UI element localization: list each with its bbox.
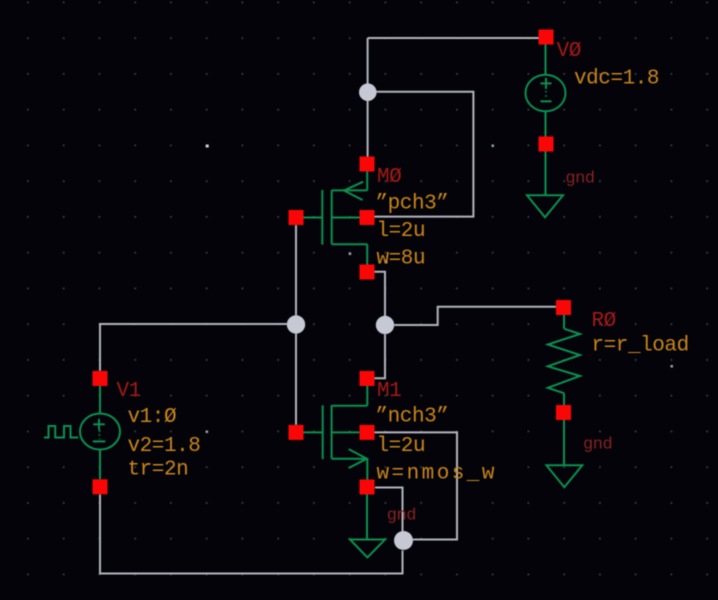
pin M0 gate	[289, 210, 304, 225]
transistor M1 nmos nch3	[304, 386, 368, 540]
voltage source V0	[526, 45, 566, 196]
wire	[375, 272, 386, 316]
svg-text:V1: V1	[117, 380, 141, 403]
wire	[295, 225, 297, 315]
wire	[295, 334, 297, 425]
node gnd junction	[394, 531, 413, 550]
pin V0 plus	[539, 30, 554, 45]
svg-text:RØ: RØ	[592, 310, 616, 333]
svg-text:tr=2n: tr=2n	[128, 459, 189, 482]
node output junction	[376, 316, 394, 334]
resistor R0	[548, 315, 580, 465]
ground under V0	[527, 195, 563, 217]
node vdd junction	[359, 83, 377, 101]
pin R0 top	[556, 300, 571, 315]
node input junction	[287, 315, 305, 333]
wire	[367, 38, 369, 84]
svg-text:l=2u: l=2u	[377, 220, 426, 243]
pin M0 source	[360, 157, 375, 172]
pin M1 bulk	[360, 425, 375, 440]
wire	[375, 432, 458, 539]
wire	[367, 101, 369, 157]
svg-text:w=nmos_w: w=nmos_w	[377, 463, 497, 486]
ground under R0	[546, 465, 582, 487]
ground under M1	[350, 540, 385, 558]
svg-text:w=8u: w=8u	[377, 248, 426, 271]
pin V0 minus	[539, 137, 554, 152]
pin V1 minus	[93, 479, 108, 494]
svg-text:r=r_load: r=r_load	[592, 335, 689, 358]
wire	[394, 307, 556, 325]
pin M0 bulk	[360, 210, 375, 225]
pin M1 drain	[360, 371, 375, 386]
wire	[100, 324, 287, 371]
wire	[375, 334, 386, 378]
svg-text:l=2u: l=2u	[377, 435, 426, 458]
svg-text:MØ: MØ	[377, 166, 401, 189]
pin M1 gate	[289, 425, 304, 440]
wire	[368, 37, 539, 39]
svg-text:gnd: gnd	[387, 507, 416, 526]
wire	[375, 488, 403, 532]
transistor M0 pmos pch3	[304, 172, 368, 265]
pin V1 plus	[93, 371, 108, 386]
svg-text:VØ: VØ	[557, 40, 581, 63]
svg-text:gnd: gnd	[583, 435, 612, 454]
pin M1 source	[360, 480, 375, 495]
pin R0 bottom	[556, 405, 571, 420]
svg-text:v2=1.8: v2=1.8	[128, 435, 201, 458]
svg-text:vdc=1.8: vdc=1.8	[574, 68, 659, 91]
pulse source V1	[44, 386, 120, 479]
svg-text:”pch3”: ”pch3”	[376, 193, 449, 216]
svg-text:M1: M1	[377, 380, 401, 403]
svg-text:”nch3”: ”nch3”	[376, 406, 449, 429]
svg-text:v1:Ø: v1:Ø	[128, 406, 177, 429]
svg-text:gnd: gnd	[565, 170, 594, 189]
wire	[100, 495, 403, 574]
wire	[375, 92, 474, 217]
pin M0 drain	[360, 265, 375, 280]
